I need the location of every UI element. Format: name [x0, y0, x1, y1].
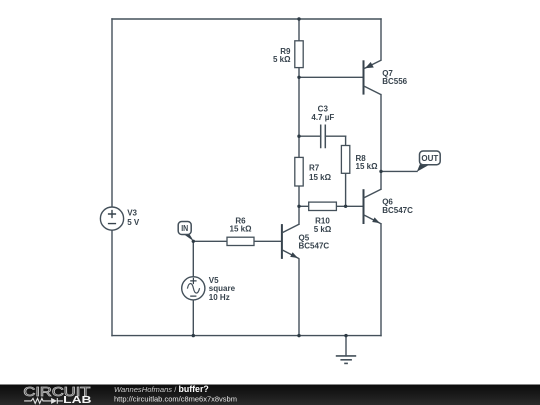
resistor R7	[295, 157, 332, 186]
wire right rail top (to Q7 emitter)	[380, 19, 382, 60]
resistor R6	[227, 216, 254, 245]
node IN flag	[178, 222, 194, 242]
wire R10 left lead	[299, 205, 309, 207]
svg-text:15 kΩ: 15 kΩ	[230, 225, 253, 234]
svg-text:LAB: LAB	[63, 395, 91, 405]
node junction Q5 emitter bottom	[297, 334, 300, 337]
wire R6 right lead to Q5 base	[254, 240, 281, 242]
wire Q7 base	[299, 76, 363, 78]
svg-text:15 kΩ: 15 kΩ	[309, 173, 332, 182]
wire Q7 collector to OUT node	[380, 95, 382, 172]
voltage source V5	[182, 276, 236, 302]
wire IN node to R6	[193, 240, 227, 242]
svg-text:IN: IN	[181, 224, 188, 233]
wire top rail	[112, 18, 381, 20]
wire R9 bottom lead to Q7 base node	[298, 68, 300, 78]
resistor R9	[273, 41, 303, 68]
node junction OUT	[379, 170, 382, 173]
svg-text:5 kΩ: 5 kΩ	[314, 225, 332, 234]
svg-text:4.7 µF: 4.7 µF	[311, 113, 334, 122]
svg-text:15 kΩ: 15 kΩ	[356, 162, 379, 171]
node junction R9 / Q7 base	[297, 76, 300, 79]
wire R8 top lead	[345, 136, 347, 145]
wire R10 right lead to Q6 base	[336, 205, 362, 207]
svg-text:WannesHofmans / buffer?: WannesHofmans / buffer?	[114, 384, 209, 394]
wire R7 bottom lead	[298, 186, 300, 206]
ground	[336, 356, 356, 364]
footer title text	[114, 384, 237, 403]
wire C3 left lead	[299, 135, 321, 137]
node junction R7 / R10 / Q5 collector	[297, 205, 300, 208]
node junction R8 / R10 / Q6 base	[344, 205, 347, 208]
wire left rail lower	[111, 230, 113, 335]
wire V5 bottom to ground rail	[192, 300, 194, 336]
svg-text:http://circuitlab.com/c8me6x7x: http://circuitlab.com/c8me6x7x8vsbm	[114, 395, 237, 404]
svg-text:BC547C: BC547C	[382, 206, 413, 215]
wire OUT node to Q6 collector	[380, 171, 382, 189]
wire ground stem	[345, 336, 347, 356]
transistor Q6 (NPN BC547C)	[364, 189, 414, 224]
node OUT flag	[417, 151, 440, 172]
wire Q5 collector stub	[298, 206, 300, 224]
transistor Q7 (PNP BC556)	[364, 60, 408, 94]
svg-text:5 V: 5 V	[127, 218, 140, 227]
wire R8 bottom lead	[345, 173, 347, 206]
footer bar	[0, 385, 540, 405]
node junction top rail / R9	[297, 17, 300, 20]
transistor Q5 (NPN BC547C)	[282, 224, 330, 259]
svg-text:10 Hz: 10 Hz	[209, 293, 230, 302]
wire R9 top lead	[298, 19, 300, 41]
wire left rail upper	[111, 19, 113, 207]
svg-text:OUT: OUT	[421, 154, 438, 163]
wire C3 node to R7	[298, 136, 300, 157]
svg-text:V3: V3	[127, 209, 137, 218]
wire Q5 emitter stub	[298, 259, 300, 336]
svg-text:BC556: BC556	[382, 77, 407, 86]
wire OUT branch	[381, 170, 417, 172]
wire node A to C3 node	[298, 77, 300, 136]
voltage source V3	[100, 207, 139, 230]
capacitor C3	[311, 104, 334, 148]
resistor R8	[341, 146, 378, 174]
svg-text:BC547C: BC547C	[299, 242, 330, 251]
wire IN node to V5 top	[192, 241, 194, 276]
CircuitLab logo	[23, 384, 91, 405]
wire bottom rail	[112, 335, 381, 337]
svg-text:square: square	[209, 284, 236, 293]
node junction ground	[344, 334, 347, 337]
resistor R10	[309, 202, 337, 234]
node junction C3 left	[297, 135, 300, 138]
node junction V5 bottom	[192, 334, 195, 337]
wire C3 right lead	[325, 135, 345, 137]
wire Q6 emitter stub	[380, 224, 382, 336]
svg-text:R7: R7	[309, 164, 320, 173]
svg-text:5 kΩ: 5 kΩ	[273, 55, 291, 64]
node junction IN	[192, 240, 195, 243]
